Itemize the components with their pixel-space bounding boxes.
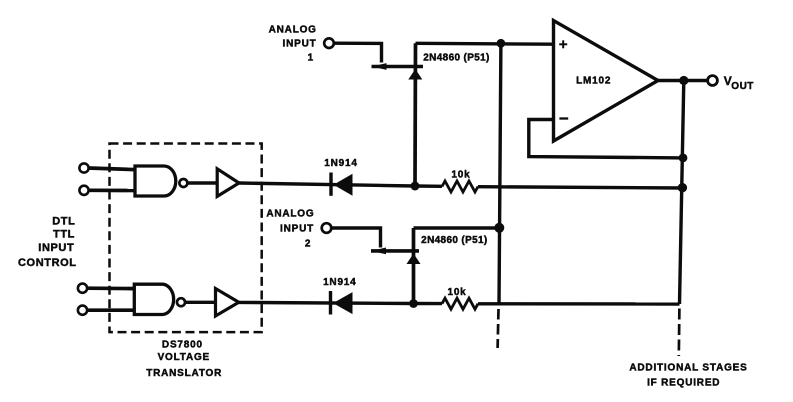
svg-text:LM102: LM102 [576,76,611,87]
svg-text:ADDITIONAL STAGES: ADDITIONAL STAGES [629,363,747,374]
svg-text:10k: 10k [451,170,470,181]
svg-text:TTL: TTL [53,229,75,241]
svg-text:ANALOG: ANALOG [269,25,317,36]
svg-text:10k: 10k [447,287,466,298]
svg-text:2N4860 (P51): 2N4860 (P51) [423,53,489,64]
svg-text:DTL: DTL [52,215,75,227]
svg-text:1N914: 1N914 [323,277,356,288]
svg-text:INPUT: INPUT [38,242,74,254]
svg-text:2: 2 [305,239,311,250]
svg-text:CONTROL: CONTROL [18,257,77,269]
svg-text:IF REQUIRED: IF REQUIRED [647,378,720,389]
svg-text:VOLTAGE: VOLTAGE [158,352,210,363]
svg-text:1: 1 [308,52,314,63]
svg-text:INPUT: INPUT [283,38,317,49]
svg-text:ANALOG: ANALOG [266,208,314,219]
svg-text:OUT: OUT [731,81,754,92]
svg-text:INPUT: INPUT [280,224,314,235]
svg-text:DS7800: DS7800 [162,340,203,351]
svg-text:TRANSLATOR: TRANSLATOR [146,368,222,379]
svg-text:2N4860 (P51): 2N4860 (P51) [421,235,487,246]
svg-text:1N914: 1N914 [324,158,357,169]
